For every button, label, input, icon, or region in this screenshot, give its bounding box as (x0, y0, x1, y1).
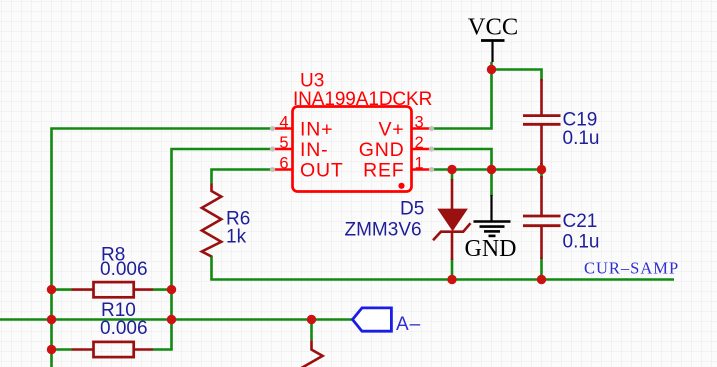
resistor R8 (52, 282, 172, 297)
pin 6 stub (273, 168, 293, 171)
junction pin1/GND (487, 165, 496, 174)
svg-text:0.006: 0.006 (100, 259, 148, 280)
wire node to GND (490, 170, 493, 197)
wire R6 bottom to CUR-SAMP row (212, 256, 675, 280)
label R8 (101, 244, 125, 265)
pin name REF (363, 160, 404, 182)
pin end dot 4 (270, 126, 275, 131)
svg-text:A–: A– (396, 314, 421, 335)
wire node to lower resistor (310, 320, 313, 341)
pin number 4 (279, 113, 288, 131)
wire pin2 to node (432, 149, 492, 170)
label R10 (101, 300, 136, 321)
svg-text:OUT: OUT (300, 160, 344, 182)
svg-text:CUR–SAMP: CUR–SAMP (584, 259, 679, 278)
pin number 2 (415, 134, 424, 152)
pin 1 stub (412, 168, 432, 171)
pin name OUT (300, 160, 344, 182)
svg-text:GND: GND (465, 236, 517, 262)
pin name IN+ (300, 119, 333, 141)
pin name GND (359, 139, 405, 161)
designator U3 (300, 71, 324, 92)
wire VCC to C19 (492, 70, 542, 82)
port A- (353, 308, 392, 331)
pin 5 stub (273, 148, 293, 151)
svg-text:1: 1 (415, 154, 424, 172)
label D5 (400, 199, 424, 220)
svg-text:5: 5 (279, 134, 288, 152)
junction pin1/D5 (447, 165, 456, 174)
pin number 6 (279, 154, 288, 172)
IC U3 body (293, 107, 412, 192)
pin end dot 5 (270, 146, 275, 151)
wire pin6 to R6 (212, 170, 273, 184)
junction R8 left (47, 285, 56, 294)
pin number 3 (415, 113, 424, 131)
wire pin5 to second vertical (153, 149, 273, 350)
svg-text:3: 3 (415, 113, 424, 131)
resistor partial bottom (301, 340, 323, 367)
pin end dot 3 (429, 126, 434, 131)
pin end dot 2 (429, 146, 434, 151)
svg-text:IN+: IN+ (300, 119, 333, 141)
label C21 (563, 211, 598, 232)
value 0.006 (R8) (100, 259, 148, 280)
junction R10 left (47, 345, 56, 354)
diode D5 (zener) (433, 179, 471, 260)
svg-text:IN-: IN- (300, 139, 328, 161)
svg-text:GND: GND (359, 139, 405, 161)
pin end dot 1 (429, 167, 434, 172)
wire pin1 row (432, 168, 542, 171)
svg-text:0.006: 0.006 (100, 318, 148, 339)
wire pin4 to left vertical (52, 129, 273, 367)
label R6 (226, 209, 250, 230)
junction R8 right (167, 285, 176, 294)
pin name V+ (379, 119, 405, 141)
capacitor C21 (523, 176, 561, 259)
junction mid second (167, 315, 176, 324)
junction mid third (307, 315, 316, 324)
resistor R6 (202, 184, 222, 257)
pin name IN- (300, 139, 328, 161)
value ZMM3V6 (345, 219, 422, 240)
wire pin3 to VCC (432, 70, 492, 129)
svg-text:ZMM3V6: ZMM3V6 (345, 219, 422, 240)
wire middle row to port A- (0, 318, 353, 321)
svg-text:4: 4 (279, 113, 288, 131)
pin number 5 (279, 134, 288, 152)
svg-text:0.1u: 0.1u (563, 128, 600, 149)
pin 2 stub (412, 148, 432, 151)
ground symbol GND (465, 195, 517, 262)
svg-text:D5: D5 (400, 199, 424, 220)
capacitor C19 (523, 79, 561, 165)
wire node to D5 (451, 170, 454, 181)
resistor R10 (52, 342, 154, 357)
pin end dot 6 (270, 167, 275, 172)
value 0.006 (R10) (100, 318, 148, 339)
svg-text:0.1u: 0.1u (563, 232, 600, 253)
junction mid left (47, 315, 56, 324)
svg-text:C21: C21 (563, 211, 598, 232)
junction VCC node (487, 65, 496, 74)
pin 3 stub (412, 127, 432, 130)
value 0.1u (C21) (563, 232, 600, 253)
wire D5 bottom to row (451, 259, 454, 280)
junction row/C21 (537, 275, 546, 284)
port label A- (396, 314, 421, 335)
svg-text:REF: REF (363, 160, 404, 182)
wire node to C21 (540, 170, 543, 179)
IC pin1 marker dot (398, 183, 404, 189)
svg-text:2: 2 (415, 134, 424, 152)
part number INA199A1DCKR (293, 89, 432, 110)
pin number 1 (415, 154, 424, 172)
svg-text:6: 6 (279, 154, 288, 172)
junction row/D5 (447, 275, 456, 284)
label C19 (563, 110, 598, 131)
svg-text:1k: 1k (226, 227, 247, 248)
net label CUR-SAMP (584, 259, 679, 278)
svg-text:V+: V+ (379, 119, 405, 141)
value 1k (226, 227, 247, 248)
wire C21 bottom to row (540, 257, 543, 280)
power flag VCC (468, 13, 518, 69)
wire C19 lower stub to node (540, 163, 543, 170)
pin 4 stub (273, 127, 293, 130)
junction pin1/C19 (537, 165, 546, 174)
value 0.1u (C19) (563, 128, 600, 149)
svg-text:VCC: VCC (468, 13, 518, 40)
svg-text:INA199A1DCKR: INA199A1DCKR (293, 89, 432, 110)
